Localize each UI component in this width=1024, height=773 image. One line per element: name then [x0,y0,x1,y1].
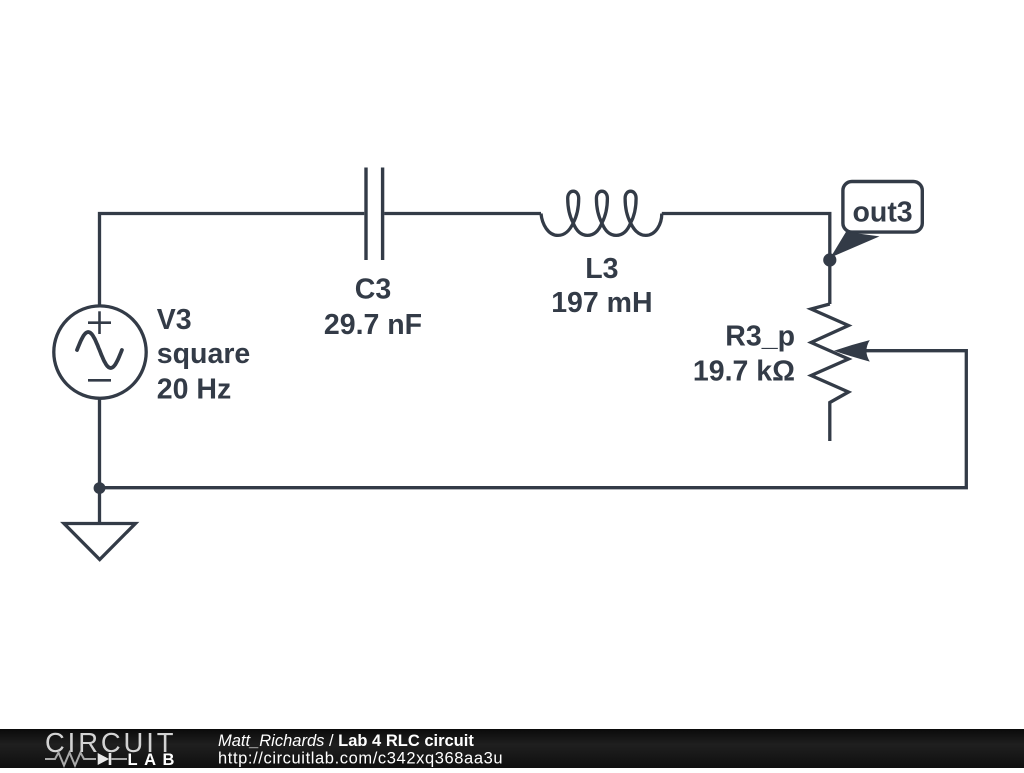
svg-text:197 mH: 197 mH [551,287,652,319]
svg-text:http://circuitlab.com/c342xq36: http://circuitlab.com/c342xq368aa3u [218,749,503,767]
svg-text:19.7 kΩ: 19.7 kΩ [693,356,795,388]
svg-text:R3_p: R3_p [725,321,795,353]
svg-text:square: square [157,338,250,370]
svg-text:LAB: LAB [128,751,181,768]
svg-text:C3: C3 [355,273,391,305]
svg-text:29.7 nF: 29.7 nF [324,309,422,341]
svg-text:20 Hz: 20 Hz [157,374,231,406]
svg-text:Matt_Richards / Lab 4 RLC circ: Matt_Richards / Lab 4 RLC circuit [218,732,474,750]
svg-text:out3: out3 [853,197,913,229]
svg-text:V3: V3 [157,304,192,336]
svg-text:L3: L3 [585,253,618,285]
